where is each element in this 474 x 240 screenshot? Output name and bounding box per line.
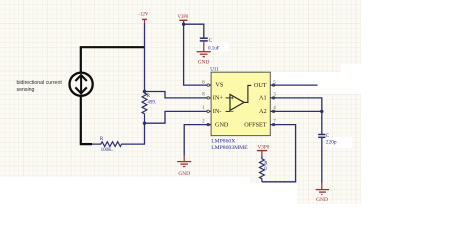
svg-text:LMP860X: LMP860X <box>211 138 235 144</box>
wire to IN- <box>145 111 209 123</box>
capacitor C 220p <box>318 134 337 146</box>
white band near OUT wire <box>270 72 361 94</box>
IC pin stubs left <box>205 85 211 125</box>
wire GND pin2 <box>184 125 211 156</box>
IC part labels <box>211 138 248 151</box>
wire to IN+ <box>145 92 209 98</box>
svg-text:U11: U11 <box>210 68 219 73</box>
wire down to C2 <box>321 111 323 134</box>
wire black top <box>81 47 145 73</box>
resistor R 0 <box>260 156 269 182</box>
white area bottom left <box>0 177 250 240</box>
pin hotspot circles <box>207 84 275 126</box>
ground GND2 <box>177 156 191 178</box>
op-amp triangle <box>226 85 252 111</box>
node junction dot1 <box>143 90 146 93</box>
svg-text:A1: A1 <box>259 95 267 102</box>
svg-text:100K.: 100K. <box>101 148 113 153</box>
svg-text:V3P0: V3P0 <box>257 145 269 151</box>
wire A1 pin3 <box>270 98 322 112</box>
wire C2 to ground <box>321 137 323 182</box>
svg-text:-12V: -12V <box>138 13 149 18</box>
svg-text:VS: VS <box>215 82 223 89</box>
svg-text:GND: GND <box>316 197 328 203</box>
svg-text:IN+: IN+ <box>213 95 224 102</box>
svg-text:V3P0: V3P0 <box>178 15 189 20</box>
ground GND3 <box>316 183 329 203</box>
white area bottom mid <box>250 184 297 240</box>
power V3P0 lower <box>257 145 270 156</box>
wire VS vertical <box>184 24 211 85</box>
wire to C1 <box>184 24 204 37</box>
capacitor C 0.1uF <box>200 38 220 51</box>
svg-text:OFFSET: OFFSET <box>244 121 267 128</box>
svg-text:220p: 220p <box>326 140 337 146</box>
svg-text:0.1uF: 0.1uF <box>208 46 220 51</box>
resistor R 100K <box>92 137 122 153</box>
wire OFFSET loop <box>262 125 296 182</box>
white label box 220p <box>325 137 353 148</box>
svg-text:OUT: OUT <box>254 82 267 89</box>
white area bottom right <box>297 204 361 240</box>
wire OUT pin5 <box>270 84 317 86</box>
svg-text:499.: 499. <box>147 100 156 105</box>
svg-text:sensing: sensing <box>17 87 35 93</box>
IC pin stubs right <box>270 85 277 125</box>
IC pin names <box>213 82 267 129</box>
node junction dot3 <box>182 23 185 26</box>
IC U11 body <box>210 68 270 136</box>
svg-text:bidirectional current: bidirectional current <box>17 80 63 86</box>
wire dot2 down to R100K <box>121 123 144 144</box>
svg-text:LMP8603MME: LMP8603MME <box>211 145 248 151</box>
svg-text:GND: GND <box>198 59 210 65</box>
white label box 0.1uF <box>204 43 229 52</box>
ground GND1 <box>197 41 211 66</box>
wire A2 pin4 <box>270 110 322 112</box>
current source CS1 <box>70 73 93 96</box>
svg-text:GND: GND <box>178 171 190 177</box>
wire black bottom <box>81 96 92 145</box>
power V3P0 top <box>178 15 189 24</box>
svg-text:GND: GND <box>215 121 229 128</box>
pin numbers <box>202 80 276 124</box>
white band corner <box>341 64 361 72</box>
svg-text:IN-: IN- <box>213 108 222 115</box>
node junction dot2 <box>143 122 146 125</box>
node junction dot4 <box>320 110 323 113</box>
white area right <box>361 0 474 240</box>
power -12V <box>138 13 149 23</box>
svg-text:A2: A2 <box>259 108 267 115</box>
resistor R 499 <box>142 92 156 124</box>
wire -12V vertical <box>144 23 146 92</box>
